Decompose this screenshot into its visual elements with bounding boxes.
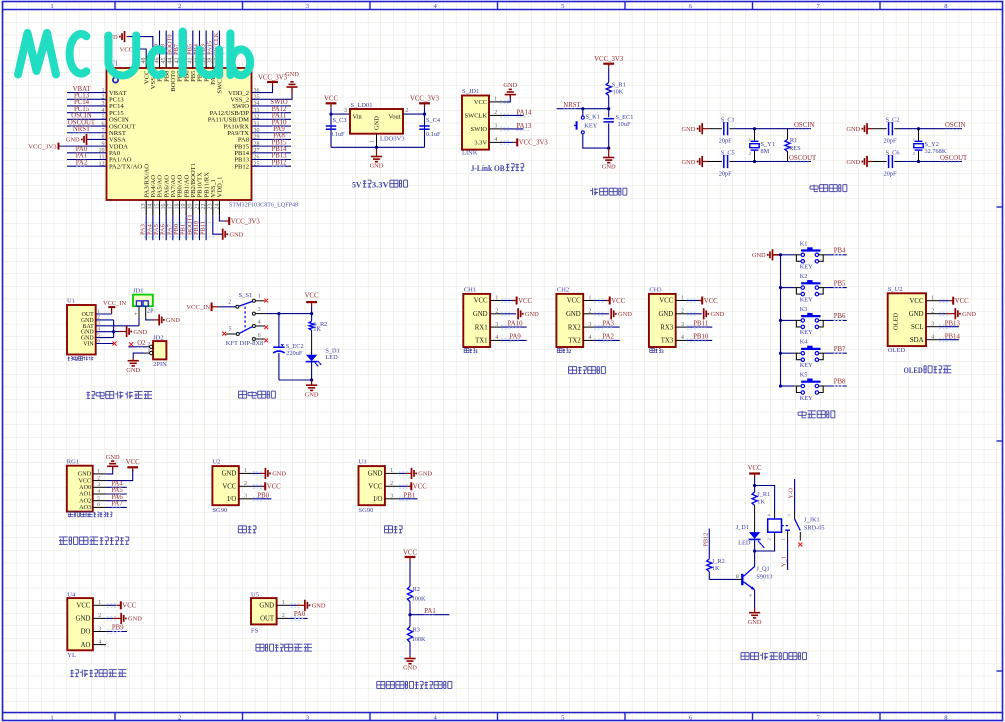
svg-text:SRD-05: SRD-05 — [804, 525, 825, 532]
svg-text:U3: U3 — [359, 459, 367, 466]
title charge-discharge module — [87, 391, 90, 393]
svg-text:U4: U4 — [67, 591, 76, 598]
svg-text:GND: GND — [909, 311, 924, 318]
power VCC_3V3 at LDO output — [419, 102, 430, 104]
svg-text:VCC: VCC — [474, 99, 487, 106]
title servo U3 — [384, 525, 392, 527]
svg-text:PA9: PA9 — [509, 334, 521, 341]
svg-text:R2: R2 — [413, 586, 420, 593]
svg-text:TX2: TX2 — [568, 338, 581, 345]
wire R3 to GND — [409, 642, 411, 655]
wire U1 pin3 BAT to JD1 — [96, 325, 139, 327]
U1 bottom pin numbers 13-24 (rotated) — [141, 204, 220, 210]
svg-text:GND: GND — [368, 471, 383, 478]
wire S_JD1 pin2 PA14 — [489, 114, 503, 116]
svg-text:AO3: AO3 — [79, 504, 91, 511]
wire U1 GND pins 2 4 5 — [96, 319, 114, 321]
title reset circuit — [591, 188, 593, 195]
svg-text:PB5: PB5 — [834, 280, 846, 287]
svg-text:S_S1: S_S1 — [239, 292, 253, 299]
relay contact NO stub — [799, 532, 801, 541]
U1 left pin names — [109, 90, 142, 171]
wire LDO ground rail — [331, 146, 425, 148]
svg-text:100K: 100K — [412, 636, 426, 643]
wire cap to OSCOUT — [894, 161, 899, 163]
svg-text:20pF: 20pF — [884, 138, 897, 145]
svg-text:PA10: PA10 — [508, 320, 523, 327]
svg-text:VCC: VCC — [910, 298, 924, 305]
power VCC at S_U2 — [949, 300, 953, 302]
svg-text:I/O: I/O — [373, 496, 382, 503]
wire U1 pin8 VSSA to GND — [87, 138, 107, 140]
ground GND at key circuit — [772, 249, 774, 260]
power VCC above relay — [749, 472, 760, 474]
svg-text:220uF: 220uF — [286, 350, 303, 357]
svg-text:R3: R3 — [413, 626, 420, 633]
svg-text:GND: GND — [748, 619, 762, 626]
connector CH3 body — [649, 294, 676, 347]
wire U4 pin2 to GND — [93, 617, 107, 619]
wire VCC_3V3 to S_R1 — [608, 76, 610, 83]
wire cap to OSCOUT — [730, 161, 735, 163]
U1 bottom pin names (rotated) — [143, 163, 223, 197]
svg-text:SWCLK: SWCLK — [465, 113, 488, 120]
wire CH2 pin3 — [583, 326, 594, 328]
svg-text:S9013: S9013 — [756, 574, 772, 581]
svg-text:SG90: SG90 — [359, 507, 374, 514]
svg-text:KEY: KEY — [800, 362, 813, 369]
svg-text:GND: GND — [374, 116, 381, 130]
wire key S_K1 bottom to GND node — [583, 134, 609, 148]
svg-text:OSCOUT: OSCOUT — [789, 155, 817, 162]
svg-text:NRST: NRST — [563, 102, 581, 109]
power VCC above power circuit — [306, 301, 317, 303]
wire U4 pin4 stub — [93, 644, 106, 646]
wire CH3 pin4 — [676, 339, 687, 341]
wire CH3 pin1 to VCC — [676, 300, 687, 302]
power VCC at CH2 — [606, 300, 610, 302]
power VCC_3V3 above U1 pin36 — [267, 81, 278, 83]
module U4 rain detector body — [67, 598, 93, 650]
JD2 pin circles — [150, 345, 153, 348]
switch S_S1 link dashed — [244, 307, 246, 331]
relay dashed link — [782, 525, 790, 527]
svg-text:GND: GND — [305, 391, 319, 398]
svg-text:VCC_IN: VCC_IN — [103, 300, 126, 307]
resistor R1 RES — [787, 129, 789, 140]
svg-text:S_U2: S_U2 — [888, 286, 903, 293]
svg-text:R1: R1 — [790, 137, 797, 144]
wire R2 to PA1 node — [409, 602, 411, 627]
wire U1 pin6 OSCOUT — [67, 125, 107, 127]
svg-text:PA13: PA13 — [517, 123, 532, 130]
svg-text:OUT: OUT — [260, 616, 275, 623]
svg-text:J-Link OB: J-Link OB — [471, 163, 505, 173]
wire U1 pin28 PB15 — [252, 145, 292, 147]
wire VCC to U1 top pin 48 — [135, 49, 147, 56]
svg-text:PB8: PB8 — [834, 379, 846, 386]
wire VCC to relay coil — [755, 486, 775, 512]
svg-text:GND: GND — [230, 232, 244, 239]
svg-text:VCC_IN: VCC_IN — [186, 304, 210, 311]
wire U1 top pin 45 — [165, 31, 167, 56]
svg-text:SDA: SDA — [910, 337, 924, 344]
wire key K1 to net — [825, 254, 846, 256]
svg-text:GND: GND — [370, 163, 384, 170]
svg-text:GND: GND — [128, 616, 142, 623]
svg-text:PA1: PA1 — [424, 608, 435, 615]
svg-text:U1: U1 — [67, 298, 75, 305]
svg-text:S_K1: S_K1 — [586, 114, 600, 121]
title wind detection module — [256, 643, 264, 645]
wire key K5 to net — [825, 385, 846, 387]
title servo U2 — [238, 525, 246, 527]
ground GND at CH3 — [703, 308, 705, 319]
svg-text:S_C2: S_C2 — [886, 117, 900, 124]
title serial circuit — [569, 366, 577, 368]
svg-text:GND: GND — [418, 471, 432, 478]
servo U3 SG90 body — [359, 466, 385, 505]
svg-text:10uF: 10uF — [618, 121, 631, 128]
transistor J_Q1 S9013 — [741, 574, 743, 585]
svg-text:GND: GND — [106, 454, 120, 461]
svg-text:GND: GND — [222, 471, 237, 478]
svg-text:Vout: Vout — [389, 113, 401, 120]
svg-text:PB1: PB1 — [403, 492, 415, 499]
wire U1 pin35 VSS_2 to GND — [252, 88, 293, 99]
wire U3 pin2 to VCC — [385, 485, 399, 487]
ground GND at U1 pin8 — [86, 134, 88, 145]
svg-text:8M: 8M — [761, 148, 770, 155]
svg-text:OLED: OLED — [893, 313, 900, 330]
wire PB12 to J_R2 — [708, 529, 710, 559]
svg-text:CH2: CH2 — [557, 287, 569, 294]
wire CH2 pin4 — [583, 339, 594, 341]
wire U5 pin1 to GND — [277, 604, 291, 606]
resistor J_R1 1K — [754, 486, 756, 493]
svg-text:0.1uF: 0.1uF — [330, 131, 345, 138]
U1 top pin names (rotated) — [143, 70, 223, 94]
svg-text:VCC: VCC — [305, 292, 319, 299]
svg-text:PA2: PA2 — [76, 159, 88, 166]
svg-text:RX1: RX1 — [475, 324, 488, 331]
wire U1 bottom pin 20 — [192, 215, 194, 240]
svg-text:VCC_3V3: VCC_3V3 — [594, 56, 624, 63]
svg-text:PB14: PB14 — [945, 333, 961, 340]
svg-text:TX3: TX3 — [661, 338, 674, 345]
wire LDO Vout to VCC_3V3 — [403, 113, 425, 115]
U1 bottom pin stubs — [146, 200, 219, 215]
svg-text:PB6: PB6 — [834, 313, 846, 320]
wire U1 top pin 41 — [192, 31, 194, 56]
wire U1 pin12 PA2/TX/AO — [67, 165, 107, 167]
svg-text:2: 2 — [148, 341, 151, 347]
svg-text:VCC: VCC — [368, 484, 382, 491]
svg-text:K5: K5 — [800, 372, 808, 379]
U1 top pin stubs — [146, 56, 219, 68]
svg-text:LED: LED — [738, 540, 751, 547]
svg-text:VCC_3V3: VCC_3V3 — [258, 75, 288, 82]
wire U1 pin9 VDDA to VCC_3V3 — [59, 145, 107, 147]
wire U1 bottom pin 14 — [152, 215, 154, 240]
U1 pin1 mark circle — [113, 77, 118, 82]
wire VCC to R2 — [409, 566, 411, 586]
svg-text:2P: 2P — [147, 308, 154, 315]
relay J_JK1 SRD-05 coil — [768, 519, 782, 532]
wire U4 pin3 PB9 — [93, 631, 107, 633]
svg-text:VCC: VCC — [748, 465, 762, 472]
display S_U2 OLED body — [888, 293, 926, 346]
svg-text:100K: 100K — [412, 596, 426, 603]
erc marks top pins — [158, 47, 232, 49]
wire GND to cap — [702, 128, 707, 130]
svg-text:GND: GND — [658, 311, 673, 318]
svg-text:VCC: VCC — [413, 484, 427, 491]
svg-text:VCC: VCC — [403, 549, 417, 556]
wire cap to OSCIN — [894, 128, 899, 130]
wire S_JD1 pin3 PA13 — [489, 128, 503, 130]
power VCC at U3 — [407, 485, 411, 487]
svg-text:K4: K4 — [800, 339, 809, 346]
wire U1 pin10 PA0 — [67, 152, 107, 154]
wire U1 pin7 NRST — [67, 132, 107, 134]
svg-text:2: 2 — [178, 3, 181, 10]
wire JD1 pin2 to GND — [146, 317, 154, 320]
svg-text:GND: GND — [682, 126, 696, 133]
svg-text:J_R1: J_R1 — [757, 491, 770, 498]
ground GND at crystal cap S_C6 — [866, 156, 868, 167]
wire CH2 pin2 to GND — [583, 313, 594, 315]
svg-text:PA0: PA0 — [294, 611, 306, 618]
svg-text:GND: GND — [76, 616, 91, 623]
svg-text:YL: YL — [67, 652, 76, 659]
svg-text:GND: GND — [166, 317, 180, 324]
wire to GND symbol — [114, 331, 120, 333]
svg-text:VDD_1: VDD_1 — [217, 177, 224, 198]
LED J_D1 — [749, 532, 760, 539]
wire U1 bottom pin 22 — [205, 215, 207, 240]
svg-text:DO: DO — [81, 629, 91, 636]
connector RG1 body — [67, 466, 93, 512]
svg-text:VCC: VCC — [659, 298, 673, 305]
wire GND to cap 2 — [702, 161, 707, 163]
svg-text:SCL: SCL — [911, 324, 923, 331]
title crystal circuit — [813, 185, 815, 192]
svg-text:5V: 5V — [352, 180, 362, 190]
wire U1 pin30 PA9/TX — [252, 132, 292, 134]
wire NRST node to key S_K1 — [582, 109, 584, 117]
svg-text:PB12: PB12 — [702, 533, 709, 547]
wire PA1 — [410, 614, 449, 616]
svg-text:PB4: PB4 — [834, 248, 846, 255]
svg-text:2: 2 — [228, 299, 231, 305]
wire U1 pin33 PA12/USB/DP — [252, 112, 292, 114]
key K1 S_K1 push button — [581, 116, 584, 119]
capacitor S_EC2 220uF electrolytic — [278, 314, 280, 347]
no-ERC cross at relay NO — [798, 543, 802, 547]
wire S_U2 pin3 PB13 — [926, 326, 939, 328]
title key circuit — [801, 411, 803, 418]
title power circuit — [239, 390, 247, 392]
ground GND at CH2 — [610, 308, 612, 319]
svg-text:K2: K2 — [800, 273, 808, 280]
svg-text:VCC_3V3: VCC_3V3 — [519, 140, 549, 147]
svg-text:+: + — [134, 312, 137, 318]
junction at NRST and key — [581, 107, 584, 110]
wire U1 pin4 PC15 — [67, 112, 107, 114]
wire CH1 pin4 — [490, 339, 501, 341]
key K2 push button — [794, 288, 801, 295]
relay switch arm — [795, 519, 801, 531]
svg-text:2PIN: 2PIN — [153, 361, 167, 368]
wire U1 pin6 VIN stub — [96, 343, 114, 345]
wire RG1 pin4 PA5 — [93, 493, 107, 495]
power VCC at CH1 — [513, 300, 517, 302]
power VCC above divider — [405, 556, 416, 558]
svg-text:LDO3V3: LDO3V3 — [380, 136, 405, 143]
svg-text:GND: GND — [682, 159, 696, 166]
svg-text:SG90: SG90 — [212, 507, 227, 514]
svg-text:JD1: JD1 — [133, 288, 143, 295]
U1 top pin numbers 48-37 (rotated) — [141, 58, 220, 64]
svg-text:20pF: 20pF — [719, 138, 732, 145]
U1 left pin numbers 1-12 — [99, 88, 105, 168]
svg-text:S_R1: S_R1 — [612, 82, 626, 89]
svg-text:GND: GND — [503, 82, 517, 89]
svg-text:VCC: VCC — [122, 603, 136, 610]
svg-text:6: 6 — [258, 333, 261, 339]
svg-text:RX2: RX2 — [568, 324, 581, 331]
svg-text:K1: K1 — [800, 240, 808, 247]
wire LDO output cap branch — [424, 114, 426, 147]
ground GND below LDO — [376, 147, 378, 156]
wire CH1 pin1 to VCC — [490, 300, 501, 302]
wire RG1 pin2 to VCC — [93, 480, 107, 482]
svg-text:GND: GND — [602, 164, 616, 171]
wire U1 top pin 42 — [185, 31, 187, 56]
svg-text:1: 1 — [913, 137, 915, 142]
wire U2 pin3 PB0 — [239, 498, 253, 500]
wire U1 pin24 VDD_1 to VCC_3V3 — [219, 215, 228, 221]
svg-text:VCC: VCC — [955, 298, 969, 305]
svg-text:VCC_3V3: VCC_3V3 — [28, 143, 57, 150]
wire U1 bottom pin 13 — [145, 215, 147, 240]
crystal S_Y2 — [917, 127, 920, 130]
wire rail to key K2 — [781, 287, 795, 289]
ground GND at JD1 — [158, 314, 160, 325]
capacitor S_C3 0.1uF — [326, 125, 336, 127]
wire U1 top pin 37 — [218, 31, 220, 56]
svg-text:VCC: VCC — [119, 47, 133, 54]
wire U1 pin3 PC14 — [67, 105, 107, 107]
svg-text:KEY: KEY — [584, 123, 597, 130]
wire CH1 pin2 to GND — [490, 313, 501, 315]
svg-text:PB10: PB10 — [693, 334, 709, 341]
svg-text:GND: GND — [285, 71, 299, 78]
capacitor S_C6 20pF — [888, 155, 890, 168]
svg-text:U5: U5 — [251, 591, 259, 598]
junction VCC branch — [753, 484, 756, 487]
wire rail to key K4 — [781, 352, 795, 354]
wire rail to key K1 — [781, 254, 795, 256]
svg-text:S_C3: S_C3 — [333, 117, 347, 124]
U1 right pin numbers 36-25 — [254, 88, 260, 168]
wire base to J_R2 — [735, 578, 742, 580]
svg-text:S_C1: S_C1 — [721, 117, 735, 124]
wire LED to transistor collector — [754, 539, 756, 566]
resistor R3 100K — [407, 627, 412, 643]
wire U3 pin3 PB1 — [385, 498, 399, 500]
ground GND below relay — [754, 608, 756, 613]
svg-text:RX3: RX3 — [660, 324, 673, 331]
capacitor S_C1 20pF — [723, 122, 725, 135]
svg-text:S_C6: S_C6 — [886, 149, 900, 156]
svg-text:GND: GND — [259, 603, 274, 610]
wire U1 pin11 PA1/AO — [67, 159, 107, 161]
title photoresistor interface — [59, 536, 68, 538]
serial port comment CH3 — [650, 347, 655, 349]
MCU U1 STM32F103C8T6 body — [107, 68, 252, 200]
power VCC top-left of U1 — [134, 46, 136, 53]
regulator S_LD01 LDO3V3 body — [350, 109, 403, 134]
title rain detection module — [70, 670, 73, 672]
svg-text:LINK: LINK — [462, 150, 478, 157]
svg-text:2: 2 — [178, 714, 181, 721]
svg-text:20pF: 20pF — [884, 170, 897, 177]
wire U1 bottom pin 16 — [165, 215, 167, 240]
wire S_U2 pin2 to GND — [926, 313, 939, 315]
svg-text:1: 1 — [475, 349, 478, 355]
svg-text:PA2: PA2 — [602, 334, 614, 341]
wire U1 pin26 PB13 — [252, 159, 292, 161]
svg-text:GND: GND — [846, 126, 860, 133]
power VCC above RG1 — [127, 466, 138, 468]
svg-text:PB11: PB11 — [693, 320, 708, 327]
svg-text:GND: GND — [566, 311, 581, 318]
svg-text:GND: GND — [133, 329, 147, 336]
svg-text:S_JD1: S_JD1 — [462, 88, 479, 95]
resistor S_R2 1K — [311, 314, 313, 322]
svg-text:NRST: NRST — [73, 126, 91, 133]
ground GND at crystal cap S_C2 — [866, 123, 868, 134]
svg-text:PB0: PB0 — [257, 492, 269, 499]
svg-text:1: 1 — [258, 293, 261, 299]
svg-text:1: 1 — [148, 348, 151, 354]
photoresistor interface comment — [68, 511, 73, 513]
wire power circuit bottom rail — [279, 379, 312, 381]
svg-text:GND: GND — [312, 603, 326, 610]
svg-text:GND: GND — [618, 311, 632, 318]
svg-text:1K: 1K — [757, 498, 765, 505]
svg-text:GND: GND — [525, 311, 539, 318]
svg-text:VCC: VCC — [222, 484, 236, 491]
svg-text:20pF: 20pF — [719, 170, 732, 177]
svg-text:KFT DIP-8X8: KFT DIP-8X8 — [226, 340, 264, 347]
svg-text:S_LD01: S_LD01 — [351, 102, 373, 109]
svg-text:3.3V: 3.3V — [474, 140, 487, 147]
svg-text:32.768K: 32.768K — [925, 148, 947, 155]
svg-text:RES: RES — [789, 145, 801, 152]
svg-text:CH3: CH3 — [649, 287, 661, 294]
connector JD1 2P — [133, 295, 153, 307]
svg-text:3: 3 — [258, 307, 261, 313]
svg-text:S_C5: S_C5 — [721, 149, 735, 156]
svg-text:2: 2 — [749, 151, 751, 156]
svg-text:2: 2 — [406, 108, 409, 114]
wire NRST — [557, 108, 609, 110]
svg-text:1K: 1K — [313, 326, 321, 333]
svg-text:KEY: KEY — [800, 264, 813, 271]
